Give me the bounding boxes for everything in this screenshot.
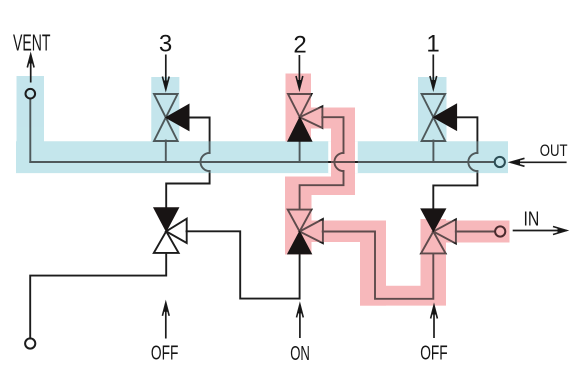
wire valve 3 pilot to lower-left valve (with hop)	[189, 118, 210, 153]
wire valve 3 bottom port	[165, 141, 167, 163]
svg-text:3: 3	[159, 31, 172, 58]
svg-text:1: 1	[426, 31, 439, 58]
wire lower-right valve right port to IN terminal	[456, 231, 495, 233]
arrow OUT (left)	[511, 158, 567, 166]
arrow IN (right)	[513, 227, 567, 235]
arrow OFF left (up)	[162, 303, 169, 339]
arrow VENT (up)	[27, 55, 34, 83]
arrow label 1 (down)	[430, 55, 437, 90]
terminal IN	[495, 226, 505, 236]
white casing where pink path crosses the cyan band	[328, 141, 358, 173]
valve 2 (top-middle) open top + right triangles	[288, 94, 322, 128]
wire lower-middle valve right port U to lower-right valve bottom	[323, 232, 434, 299]
valve 3 black pilot triangle	[166, 104, 189, 130]
svg-text:ON: ON	[290, 343, 310, 365]
arrow OFF right (up)	[431, 306, 438, 339]
lower-left valve black top triangle	[154, 208, 179, 232]
wire valve 2 bottom port	[299, 141, 301, 162]
svg-text:IN: IN	[524, 208, 540, 230]
lower-left valve open bottom + right triangles	[154, 219, 187, 253]
arrow label 3 (down)	[162, 55, 169, 90]
wire lower-left valve bottom to terminal	[30, 253, 166, 339]
lower-middle valve black bottom triangle	[288, 232, 312, 254]
valve 2 black bottom triangle	[288, 117, 312, 141]
wire valve 1 pilot to lower-right valve (with hop)	[456, 117, 477, 153]
arrow label 2 (down)	[296, 55, 303, 89]
wire valve 2 pilot to lower-middle valve (with hop)	[322, 117, 343, 153]
lower-right valve black top triangle	[421, 209, 446, 232]
terminal bottom-left	[25, 338, 35, 348]
terminal OUT	[495, 157, 505, 167]
svg-text:OFF: OFF	[151, 342, 179, 364]
valve 1 (top-right) open bowtie	[422, 94, 446, 141]
svg-text:OUT: OUT	[540, 141, 568, 160]
terminal VENT	[26, 89, 36, 99]
lower-middle valve open top + right triangles	[288, 210, 323, 244]
cyan highlight: VENT-OUT path	[16, 76, 508, 173]
lower-right valve open bottom + right triangles	[421, 219, 456, 253]
svg-text:OFF: OFF	[420, 342, 448, 364]
semi-transparent re-overlay of highlight bands (tints linework beneath)	[16, 76, 508, 173]
valve 1 black pilot triangle	[433, 104, 456, 130]
wire lower-middle valve bottom port to ON node	[299, 254, 301, 299]
svg-text:VENT: VENT	[13, 30, 51, 56]
valve 3 (top-left) open bowtie	[154, 94, 178, 141]
wire lower-left valve right port to ON node	[187, 231, 300, 298]
wire VENT vertical	[29, 99, 31, 162]
pink highlight: IN path	[285, 74, 510, 306]
wire main OUT line	[30, 161, 494, 163]
svg-text:2: 2	[293, 31, 306, 58]
arrow ON (up)	[297, 304, 304, 338]
wire valve 1 bottom port	[432, 141, 434, 163]
